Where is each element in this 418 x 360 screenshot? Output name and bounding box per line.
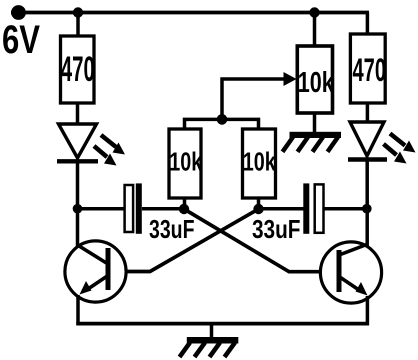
wire R5 to D2 (366, 103, 370, 124)
wire R4 to ground (313, 113, 317, 134)
capacitor C2 33uF (252, 183, 324, 244)
ground (bottom) (180, 324, 239, 357)
LED D2 (348, 122, 416, 164)
wire top tie R2-R3 (185, 119, 259, 130)
wire C1 to node under R2 (142, 207, 184, 211)
node junction rail to R4 (309, 7, 319, 17)
transistor Q1 (65, 241, 126, 302)
transistor Q2 (320, 242, 381, 303)
wire R2 bottom lead (183, 198, 187, 209)
capacitor C1 33uF (125, 183, 195, 244)
wire bottom rail (76, 322, 369, 326)
svg-text:33uF: 33uF (252, 214, 301, 244)
node junction under R3 (253, 204, 263, 214)
resistor R5 470 (350, 34, 386, 103)
wire rail to R4 (313, 13, 317, 48)
svg-text:6V: 6V (2, 18, 40, 62)
resistor R4 10k (297, 46, 334, 113)
node junction right cap (362, 204, 372, 214)
wire R3 bottom lead (257, 198, 261, 209)
wire rail to R1 (76, 13, 80, 38)
wire node to C1 (78, 207, 126, 211)
wire R1 to D1 (76, 103, 80, 126)
wire D1 to Q1 collector (76, 161, 80, 247)
resistor R3 10k (243, 129, 277, 198)
wire Q2 emitter to bottom rail (366, 296, 370, 325)
svg-text:10k: 10k (243, 149, 277, 177)
svg-text:10k: 10k (169, 149, 203, 177)
node junction left (rail to R1) (73, 7, 83, 17)
node junction left cap (73, 204, 83, 214)
svg-text:10k: 10k (298, 67, 334, 99)
wire cross-couple to Q2 base (184, 209, 338, 272)
wire top supply rail (11, 11, 369, 15)
wire D2 to Q2 collector (365, 160, 369, 248)
svg-text:470: 470 (61, 49, 95, 89)
wire rail corner to R5 (366, 13, 370, 36)
wire tie to R4 with arrow (222, 79, 286, 120)
resistor R2 10k (169, 129, 203, 198)
ground (under R4) (283, 132, 342, 152)
wire node R3 to C2 (259, 207, 305, 211)
node junction under R2 (179, 204, 189, 214)
wire cross-couple to Q1 base (110, 209, 259, 272)
wire Q1 emitter to bottom rail (76, 295, 80, 325)
LED D1 (57, 124, 125, 166)
svg-text:33uF: 33uF (149, 214, 195, 244)
resistor R1 470 (61, 36, 95, 103)
node 6V supply terminal (11, 5, 26, 20)
svg-text:470: 470 (353, 52, 387, 88)
node junction base-bias tie (217, 114, 228, 125)
wire C2 to right node (324, 207, 367, 211)
arrow into R4 (284, 72, 297, 86)
